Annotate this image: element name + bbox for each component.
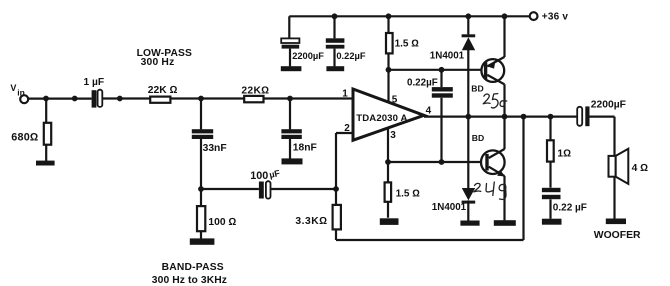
wire: input signal line to op-amp pin 1 <box>28 97 353 99</box>
wire: 18nF to ground <box>289 139 291 159</box>
svg-text:1N4001: 1N4001 <box>430 51 465 62</box>
input terminal Vin <box>20 95 28 103</box>
wire: pin 2 down through 3.3K to bottom feedback run <box>335 133 337 240</box>
ground under 2200uF reservoir <box>281 66 302 71</box>
junction: 680R tap on input line <box>43 96 49 102</box>
svg-text:3.3KΩ: 3.3KΩ <box>295 216 327 227</box>
transistor Q1 BD250 (upper PNP) <box>481 57 504 85</box>
wire: Q1 emitter to rail <box>503 16 505 57</box>
svg-text:+36 v: +36 v <box>542 12 569 23</box>
junction: output at D2 <box>465 114 471 120</box>
resistor 1.5R (lower) <box>385 182 392 201</box>
capacitor 2200uF output (series electrolytic) <box>577 106 589 126</box>
wire: pin 3 down through 1.5R to ground <box>387 128 389 218</box>
wire: 2200uF reservoir cap lead from rail <box>288 16 291 66</box>
wire: op-amp pin 2 lead <box>336 132 353 134</box>
svg-text:100 Ω: 100 Ω <box>208 217 236 228</box>
wire: 2200uF to speaker branch <box>589 115 614 117</box>
wire: D2 clamp branch output to ground <box>467 117 469 221</box>
svg-text:BD: BD <box>471 84 483 94</box>
svg-text:0.22 µF: 0.22 µF <box>553 203 587 214</box>
svg-text:4 Ω: 4 Ω <box>632 163 649 174</box>
wire: speaker to ground <box>613 177 615 220</box>
node A junction (33nF/100R/100uF) <box>198 186 204 192</box>
handwritten 249 next to lower BD <box>474 182 506 200</box>
wire: node C down to 18nF <box>289 99 291 130</box>
junction: output at Q collectors <box>502 114 508 120</box>
junction: after 1uF <box>117 96 123 102</box>
svg-text:0.22µF: 0.22µF <box>407 78 438 89</box>
svg-text:300 Hz to 3KHz: 300 Hz to 3KHz <box>152 275 227 286</box>
junction: pin3 node at lower base line <box>385 159 391 165</box>
svg-text:2: 2 <box>344 123 350 134</box>
ground under 100R <box>190 238 215 244</box>
node B junction (22K/22K/33nF) <box>198 96 204 102</box>
wire: 680R input shunt branch <box>45 99 47 162</box>
junction: lower base line at 0.22uF <box>439 159 445 165</box>
wire: 33nF down to node A <box>200 139 202 189</box>
svg-text:100: 100 <box>250 170 268 182</box>
junction: before 1uF <box>72 96 78 102</box>
svg-text:TDA2030 A: TDA2030 A <box>356 113 407 124</box>
junction: rail at Q1 emitter <box>502 13 508 19</box>
svg-text:1: 1 <box>342 88 348 99</box>
svg-text:BAND-PASS: BAND-PASS <box>162 262 224 273</box>
wire: 100 ohm to ground <box>200 189 202 239</box>
speaker woofer 4 ohm <box>609 149 629 184</box>
op-amp U1 TDA2030A triangle <box>353 89 424 140</box>
capacitor 100uF (series electrolytic) <box>259 181 271 198</box>
capacitor 2200uF reservoir (electrolytic) <box>281 38 299 48</box>
wire: output line pin4 to 2200uF <box>424 115 577 117</box>
wire: 0.22uF rail decoupling lead <box>333 16 335 66</box>
svg-text:22KΩ: 22KΩ <box>241 86 269 97</box>
wire: 0.22uF bypass vertical <box>440 70 442 162</box>
handwritten 250 next to upper BD <box>483 94 507 108</box>
wire: output to 1R branch <box>549 117 551 219</box>
wire: rail through 1.5R to pin5 node <box>387 16 389 70</box>
svg-text:WOOFER: WOOFER <box>594 230 641 241</box>
terminal +36V <box>530 12 538 20</box>
wire: D1 clamp branch rail to output <box>467 16 469 116</box>
diode 1N4001 D1 (output to rail clamp) <box>462 34 476 50</box>
svg-text:22K Ω: 22K Ω <box>148 85 178 96</box>
junction: upper base line at 0.22uF <box>439 67 445 73</box>
junction: rail at 0.22uF <box>332 13 338 19</box>
resistor 1R zobel <box>547 140 554 161</box>
svg-text:in: in <box>17 87 25 97</box>
capacitor 33nF <box>192 129 213 139</box>
wire: feedback rise to output <box>522 117 524 240</box>
wire: Q2 emitter to ground <box>503 176 505 221</box>
wire: lower base line pin3-node to Q2 base <box>388 161 486 163</box>
svg-text:0.22µF: 0.22µF <box>336 51 365 61</box>
ground under 680R <box>36 161 55 166</box>
wire: pin 5 supply lead <box>387 70 389 103</box>
resistor 1.5R (upper) <box>386 33 393 53</box>
resistor 22K (first) <box>150 97 170 103</box>
junction: rail at D1 <box>465 13 471 19</box>
ground under D2 <box>460 221 479 226</box>
junction: pin5 node at 1.5R bottom <box>386 67 392 73</box>
svg-text:3: 3 <box>390 130 396 141</box>
svg-text:2200µF: 2200µF <box>591 100 626 111</box>
svg-text:5: 5 <box>392 94 398 105</box>
svg-text:1 µF: 1 µF <box>84 77 105 88</box>
junction: pin2 node at 100uF/3.3K <box>333 186 339 192</box>
capacitor 0.22uF zobel <box>542 188 561 199</box>
junction: output at feedback <box>521 114 527 120</box>
wire: +36V supply rail <box>289 15 529 17</box>
wire: Q1 collector to output <box>503 84 505 116</box>
resistor 100R <box>197 206 205 231</box>
resistor 3.3K <box>333 205 341 230</box>
wire: bottom feedback run <box>336 239 524 241</box>
capacitor 18nF <box>281 129 301 139</box>
svg-text:680Ω: 680Ω <box>11 132 38 144</box>
wire: Q2 collector to output <box>503 117 505 150</box>
svg-text:1Ω: 1Ω <box>557 149 571 160</box>
capacitor 0.22uF supply bypass (mid) <box>432 87 453 98</box>
svg-text:BD: BD <box>472 133 484 143</box>
ground under 18nF <box>282 158 303 164</box>
svg-text:300 Hz: 300 Hz <box>141 57 175 68</box>
svg-text:1.5 Ω: 1.5 Ω <box>396 189 421 200</box>
resistor 680R <box>44 123 51 145</box>
transistor Q2 BD249 (lower NPN) <box>481 149 505 176</box>
capacitor 0.22uF rail decoupling <box>326 38 345 48</box>
ground under 0.22uF rail cap <box>326 66 344 71</box>
diode 1N4001 D2 (ground to output clamp) <box>462 188 476 204</box>
ground under speaker <box>606 219 626 225</box>
junction: rail at 1.5R <box>386 13 392 19</box>
svg-text:2200µF: 2200µF <box>292 51 324 61</box>
ground under Q2 emitter <box>494 220 516 226</box>
capacitor 1uF input (series electrolytic) <box>92 90 103 108</box>
ground under 0.22uF zobel <box>542 219 562 225</box>
node C junction (22K/18nF/pin1) <box>287 96 293 102</box>
svg-text:1N4001: 1N4001 <box>432 202 467 213</box>
wire: upper base line pin5-node to Q1 base <box>389 69 485 71</box>
wire: node A line through 100uF to pin2 node <box>201 188 336 190</box>
wire: node B down to 33nF <box>200 99 202 130</box>
ground under lower 1.5R <box>380 218 399 225</box>
svg-text:V: V <box>10 83 16 93</box>
resistor 22K (second) <box>244 96 263 102</box>
svg-text:33nF: 33nF <box>203 143 227 154</box>
svg-text:4: 4 <box>426 105 432 116</box>
wire: down to speaker <box>613 117 615 156</box>
svg-text:18nF: 18nF <box>293 143 317 154</box>
junction: output at 1R zobel <box>548 114 554 120</box>
svg-text:1.5 Ω: 1.5 Ω <box>395 39 420 50</box>
